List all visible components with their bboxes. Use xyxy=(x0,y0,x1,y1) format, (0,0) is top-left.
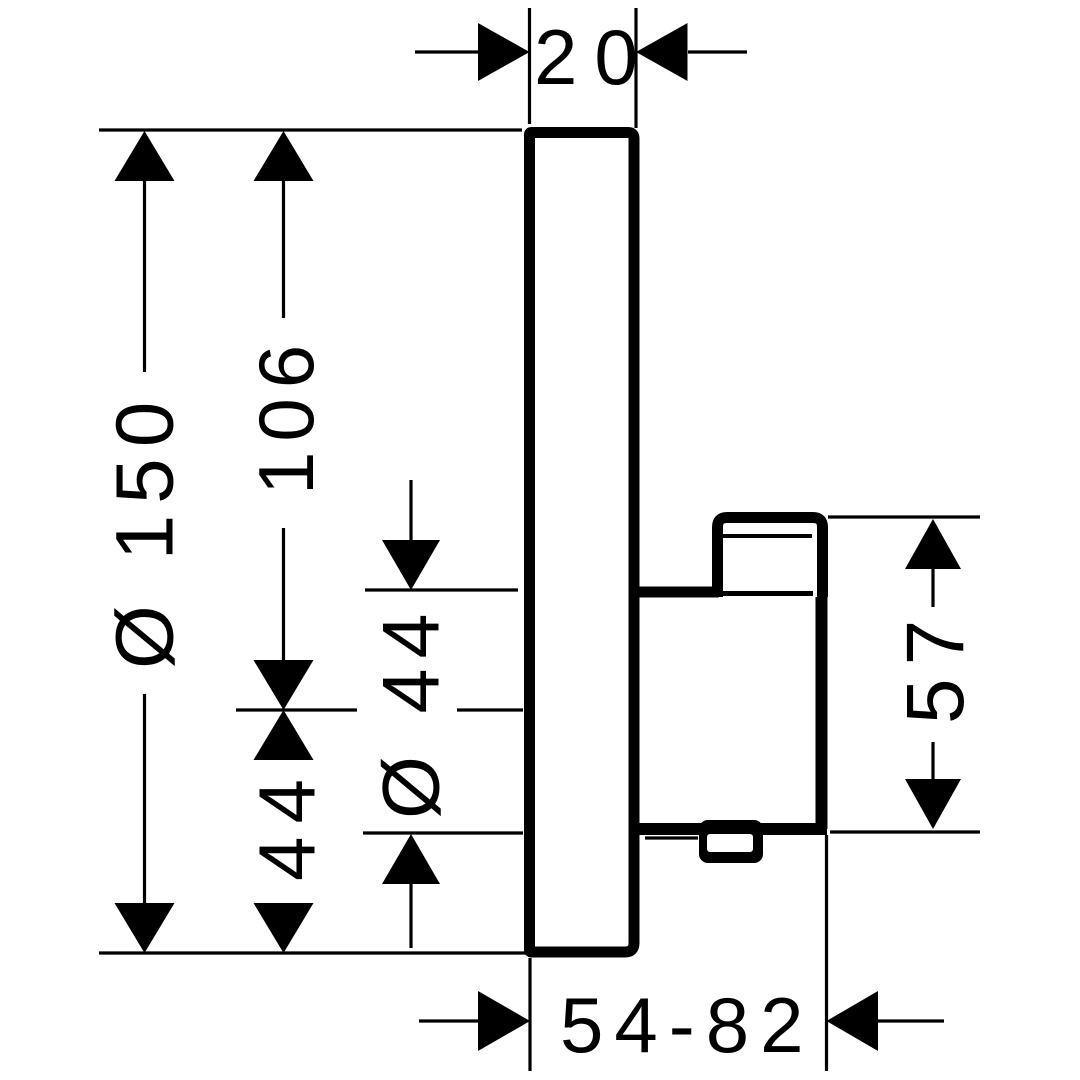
svg-text:Ø 150: Ø 150 xyxy=(100,391,191,669)
svg-text:106: 106 xyxy=(242,335,330,495)
svg-text:44: 44 xyxy=(243,766,332,881)
svg-text:20: 20 xyxy=(534,13,655,101)
svg-text:Ø 44: Ø 44 xyxy=(367,603,457,819)
svg-text:57: 57 xyxy=(890,607,981,724)
svg-text:54-82: 54-82 xyxy=(560,981,815,1069)
